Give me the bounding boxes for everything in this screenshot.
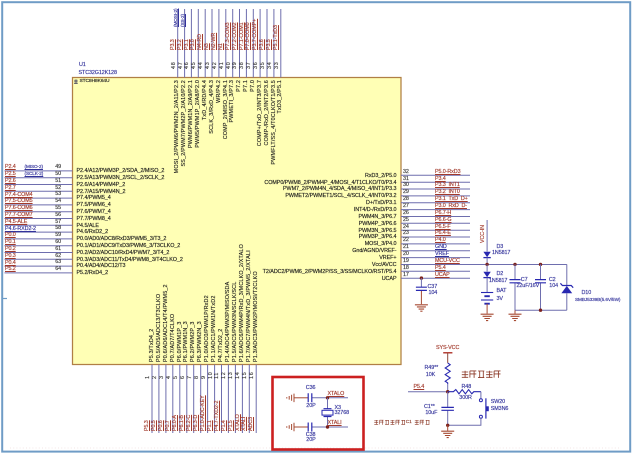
net label P2.7 (left pin 52) [5,186,16,192]
wire left pin 49 [5,170,73,172]
label SM3N6 [491,407,508,413]
pin number 9 [202,375,208,379]
net label P3.6 (top pin 35) [260,39,266,50]
pin name D+/TxD/P3.1 [237,201,397,207]
chip header STC8H8K64U [80,79,110,84]
node rail D3 [485,263,488,266]
pin number 33 [275,61,281,68]
designator U1 [79,63,86,69]
pin number 29 [403,190,409,196]
net label P1.4 (bottom pin 12) [222,420,228,431]
pin name COMP0/PWM8_2/PWM4P_4/MOSI_4/T1CLKO/T0/P3.4 [237,181,397,187]
pin name P1.1/ADC1/PWM1N/TxD2 [212,295,218,362]
pin name T2/ADC2/PWM6_2/PWM2P/SS_3/SS/MCLKO/RST/P5.4 [237,270,397,276]
pin number 35 [261,61,267,68]
pin name Vcc/AVCC [237,263,397,269]
label 10K [426,373,435,379]
pin number 10 [209,371,215,378]
wire bottom pin 11 [221,365,223,434]
pin number 47 [179,61,185,68]
net label P6.4-E (right pin 23) [435,231,451,237]
wire right pin 19 [401,264,567,266]
pin number 3 [160,375,166,379]
pin name PWM5/PWM1P_2/A8/P2.0 [196,80,202,148]
pin number 12 [222,371,228,378]
pin number 62 [47,254,61,260]
net label P7.6-COM6 (left pin 55) [5,206,33,212]
pin number 37 [247,61,253,68]
pin number 61 [47,247,61,253]
net label N2-WR (top pin 42) [212,33,218,50]
pin number 27 [403,204,409,210]
pin name P4.6/RxD2_2 [77,230,109,236]
wire right pin 31 [401,181,470,183]
pin name P2.7/A15/PWM4N_2 [77,190,126,196]
capacitor C36 20P [294,397,308,399]
wire bottom pin 2 [158,365,160,434]
wire right pin 28 [401,202,470,204]
wire right pin 25 [401,222,470,224]
crystal X3 32768 [327,398,329,427]
op-amp U1 body STC32G12K128 [73,78,402,365]
node P5.4 junction [446,390,449,393]
ground below battery [481,314,494,320]
pin name COMP-/RxD_2/INT2/P3.6 [265,80,271,146]
pin number 49 [47,165,61,171]
net label ADC3 (bottom pin 16) [249,417,255,431]
label R49** [425,366,439,372]
chip header CJK char [74,79,78,83]
wire bottom pin 4 [172,365,174,434]
net label P2.6 (left pin 51) [5,179,16,185]
net label P3.3 INT1 (right pin 30) [435,183,460,189]
node rail C2 [539,263,542,266]
ground left of C38 [287,423,294,431]
label C37 [428,285,438,291]
pin name P0.6/AD6/ADC14/T4/PWM5_2 [164,284,170,362]
pin number 36 [254,61,260,68]
net label P6.6-G (right pin 25) [435,218,451,224]
wire net P5.4 [408,391,448,393]
pin name PWMFLT/SS_4/T0CLKO/T1/P3.5 [272,80,278,165]
value STC32G12K128 [79,71,117,77]
pin number 30 [403,183,409,189]
pin number 32 [403,170,409,176]
pin number 59 [47,233,61,239]
wire right pin 21 [401,250,470,252]
ground below C7 rail [514,310,516,314]
net label P1.5 (bottom pin 13) [229,420,235,431]
pin name P0.0/AD0/ADC8/RxD3/PWM5_3/T3_2 [77,237,167,243]
pin number 23 [403,231,409,237]
wire D3 to rail [486,258,488,265]
net label P6.7-H (right pin 26) [435,211,451,217]
pin name PWM6/PWM1N_2/A9/P2.1 [189,80,195,148]
label 10uF [425,411,437,417]
wire bottom pin 15 [248,365,250,434]
wire bottom pin 7 [193,365,195,434]
pin name PWM4N_3/P6.7 [237,215,397,221]
wire right pin 30 [401,188,470,190]
pin name P7.1 [244,80,250,92]
label R48 [462,385,472,391]
pin name P7.2 [237,80,243,92]
wire left pin 60 [5,245,73,247]
net label GND (right pin 21) [435,245,447,251]
wire R48 to switch [480,392,482,399]
net label P5.4 (right pin 18) [435,266,446,272]
wire top pin 46 [190,9,192,78]
pin name P0.2/AD2/ADC10/RxD4/PWM7_3/T4_2 [77,251,170,257]
wire top pin 42 [218,9,220,78]
sheet inner margin dotted line [10,447,620,449]
wire right pin 20 [401,257,470,259]
label 20P (C36) [306,404,315,410]
pin name P5.3/TxD4_2 [150,329,156,362]
wire left pin 63 [5,265,73,267]
net label P0.5 (bottom pin 2) [152,420,158,431]
pin number 13 [229,371,235,378]
net label P0.0 (left pin 59) [5,233,16,239]
net label P2.4 (left pin 49) [5,165,16,171]
pin name P4.7/TxD2_2 [219,329,225,362]
net label P3.3 (top pin 48) [171,39,177,50]
net label P7.1-COM1 (top pin 38) [240,22,246,50]
pin name P1.6/ADC6/PWM4P/RxD_3/MCLKO_2/XTALO [240,244,246,362]
diode D10 zener [560,283,573,287]
pin name PWMETI_3/P7.3 [230,80,236,122]
pin name P7.5/PWM6_4 [77,203,111,209]
wire left pin 53 [5,197,73,199]
pin number 51 [47,179,61,185]
capacitor C37 [416,287,427,290]
wire left pin 58 [5,231,73,233]
net label P4.0 (right pin 22) [435,238,446,244]
wire right pin 26 [401,216,470,218]
wire left pin 52 [5,190,73,192]
wire top pin 37 [252,9,254,78]
label X3 [335,406,341,412]
node bottom rail C2 [539,309,542,312]
net label P4.6-RXD2-2 (left pin 58) [5,227,36,233]
pin number 53 [47,192,61,198]
pin number 46 [185,61,191,68]
net label (SCLK-2) [25,172,44,177]
wire bottom pin 6 [186,365,188,434]
pin name P6.2/PWM2P_3 [191,321,197,362]
net label P6.5-F (right pin 24) [435,225,451,231]
pin number 2 [153,375,159,379]
label C2 [549,278,556,284]
pin number 42 [213,61,219,68]
label 300R [459,396,472,402]
node UCAP junction [420,276,423,279]
net label P1.1 (bottom pin 10) [208,420,214,431]
net label P4.7-TXD2-2 (bottom pin 11) [215,401,221,431]
net label P0.3 (left pin 62) [5,254,16,260]
wire R49 to junction [447,384,449,391]
wire top pin 33 [280,9,282,78]
pin number 63 [47,260,61,266]
label 104 (C37) [429,291,438,297]
net label P3.0 (top pin 45) [191,39,197,50]
net label N3 (top pin 43) [205,43,211,50]
pin name P6.0/PWM1P_3 [178,321,184,362]
net label P2.5 (left pin 50) [5,172,16,178]
net label P5.1-TxD3 (top pin 33) [274,25,280,50]
pin number 48 [172,61,178,68]
pin number 58 [47,226,61,232]
wire top pin 38 [245,9,247,78]
net label XTALI [328,421,342,427]
net label P7.2-COM2 (top pin 39) [233,22,239,50]
label C38 [306,433,316,439]
net label P6.3-D (bottom pin 8) [194,415,200,431]
net label P6.2-C (bottom pin 7) [187,415,193,431]
pin name P4.5/ALE [77,224,99,230]
sheet zone tick left [2,298,7,300]
wire switch to ground rail [448,418,481,425]
pin number 24 [403,225,409,231]
wire top pin 45 [197,9,199,78]
highlight red box [273,377,364,450]
pin name P6.3/PWM2N_3 [198,321,204,362]
pin name P7.4/PWM5_4 [77,196,111,202]
wire top pin 48 [177,9,179,78]
pin number 56 [47,213,61,219]
wire right pin 27 [401,209,470,211]
wire top pin 44 [204,9,206,78]
pin name P0.5/AD5/ADC13/T3CLKO [157,294,163,362]
pin number 1 [146,375,152,379]
label 20P (C38) [306,438,315,444]
pin name COMP_2/MISO_3/P4.1 [224,80,230,139]
label 1N5817 (D2) [489,279,507,285]
net label (MOSI-2) [174,8,179,26]
pin number 38 [240,61,246,68]
wire bottom pin 3 [165,365,167,434]
net label VREF (right pin 20) [435,252,449,258]
wire right pin 32 [401,174,470,176]
wire C37 stem [420,278,422,287]
wire top pin 34 [273,9,275,78]
wire left pin 64 [5,272,73,274]
wire top pin 36 [259,9,261,78]
pin number 52 [47,186,61,192]
pin name WR/P4.2 [217,80,223,103]
net label P3.2 INT0 (right pin 29) [435,190,460,196]
net label P6.0-A (bottom pin 5) [173,415,179,431]
pin number 55 [47,206,61,212]
capacitor C1 10uF [447,392,449,426]
net label P3.0 RxD D- (right pin 27) [435,204,467,210]
wire top pin 47 [184,9,186,78]
wire left pin 54 [5,204,73,206]
pin name PWM7_2/PWM4N_4/SDA_4/MISO_4/INT1/P3.3 [237,187,397,193]
pin number 11 [215,372,221,379]
power label SYS-VCC [436,346,459,352]
net label P1.0-ADC-KEY (bottom pin 9) [201,395,207,431]
pin name INT4/D-/RxD/P3.0 [237,208,397,214]
net label P0.6 (bottom pin 3) [159,420,165,431]
net label P7.4-COM4 (left pin 53) [5,193,33,199]
power port SYS-VCC bar [443,352,452,354]
ground below C37 [415,305,428,311]
net label N4-RD (top pin 44) [198,34,204,50]
wire bottom pin 16 [255,365,257,434]
pin number 26 [403,211,409,217]
wire battery to ground [486,304,488,314]
net label P4.5-ALE (left pin 57) [5,220,27,226]
wire bottom pin 5 [179,365,181,434]
pin name P0.4/AD4/ADC12/T3 [77,264,126,270]
resistor R49 10K [445,363,450,384]
capacitor C2 [540,264,542,310]
node C1 ground junction [446,424,449,427]
pin name TxD3_2/P5.1 [278,80,284,113]
wire left pin 57 [5,224,73,226]
pin number 44 [199,61,205,68]
net label (MISO-2) [25,165,43,170]
net label P5.2 (left pin 64) [5,267,16,273]
wire right pin 17 [401,277,470,279]
pin number 50 [47,172,61,178]
net label XTALI (bottom pin 15) [242,417,248,431]
pin name P1.0/ADC0/PWM1P/RxD2 [205,295,211,362]
text low-level-reset (CJK) [462,371,501,378]
pin number 6 [181,375,187,379]
capacitor C38 20P [294,426,308,428]
net label P3.2 (top pin 47) [178,39,184,50]
pin name PWM3N_3/P6.5 [237,229,397,235]
pin number 28 [403,197,409,203]
net label MCU-VCC (right pin 19) [435,259,460,265]
pin name P2.5/A13/PWM3N_2/SCL_2/SCLK_2 [77,176,165,182]
pin name PWM4P_3/P6.6 [237,222,397,228]
wire D10 branch [566,264,568,285]
wire top pin 40 [232,9,234,78]
pin number 16 [250,371,256,378]
wire top pin 35 [266,9,268,78]
battery BAT 3V [486,278,488,293]
pin number 25 [403,218,409,224]
diode D2 [486,264,488,271]
ground below C1 [447,425,449,431]
wire bottom pin 10 [214,365,216,434]
pin name SS_2/PWM7/PWM2P_2/A10/P2.2 [182,80,188,166]
wire top pin 41 [225,9,227,78]
pin number 8 [195,375,201,379]
pin name COMP+/TxD_2/INT3/P3.7 [258,80,264,146]
pin name UCAP [237,277,397,283]
pin number 41 [220,61,226,68]
text use-internal-reset note (CJK) [374,420,405,425]
pin name P5.2/RxD4_2 [77,271,109,277]
pin name P0.7/AD7/T4CLKO [171,314,177,362]
pin name P2.4/A12/PWM3P_2/SDA_2/MISO_2 [77,169,165,175]
capacitor C7 [514,264,516,310]
pin number 20 [403,252,409,258]
wire left pin 55 [5,211,73,213]
net label P0.2 (left pin 61) [5,247,16,253]
net label P3.1 (top pin 46) [185,39,191,50]
wire right pin 29 [401,195,470,197]
pin number 45 [192,61,198,68]
pin number 34 [268,61,274,68]
label BAT [497,289,507,295]
pin name P7.6/PWM7_4 [77,210,111,216]
wire left pin 51 [5,184,73,186]
wire top pin 39 [239,9,241,78]
pin name P1.5/ADC5/PWM3N/SCLK/SCL [233,282,239,362]
wire right pin 23 [401,236,470,238]
net label XTALO (bottom pin 14) [236,414,242,431]
wire right pin 22 [401,243,470,245]
label 32768 [335,411,350,417]
net label P5.0-RxD3 (right pin 32) [435,170,460,176]
pin name VREF+ [237,256,397,262]
pin number 54 [47,199,61,205]
wire left pin 56 [5,218,73,220]
wire left pin 61 [5,252,73,254]
label 22uF/16V [517,284,540,290]
pin number 39 [233,61,239,68]
net label P3.4 (right pin 31) [435,177,446,183]
pin name RxD3_2/P5.0 [237,174,397,180]
label SMBJ5339B [575,298,620,303]
net label P3.1 TxD D+ (right pin 28) [435,197,468,203]
pin number 57 [47,220,61,226]
pin name P7.7/PWM8_4 [77,217,111,223]
wire left pin 59 [5,238,73,240]
label C7 [521,278,528,284]
pin number 19 [403,259,409,265]
net label P7.7-COM7 (left pin 56) [5,213,33,219]
label 104 (C2) [549,284,558,290]
pin name P1.3/ADC3/PWM2P/MOSI/T2CLKO [254,271,260,362]
net label P0.1 (left pin 60) [5,240,16,246]
label SW20 [491,400,505,406]
pin name Gnd/AGND/VREF- [237,249,397,255]
pin number 7 [188,375,194,379]
pin name PWM3P_3/P6.4 [237,235,397,241]
label 3V [497,297,503,303]
net label P6.1-B (bottom pin 6) [180,415,186,431]
pin number 22 [403,238,409,244]
resistor R48 300R [448,390,481,394]
net label P5.4 [414,385,425,391]
node XTALI junction [326,425,329,428]
wire left pin 50 [5,177,73,179]
wire bottom pin 8 [200,365,202,434]
label C1 in note [406,420,412,425]
wire bottom pin 13 [234,365,236,434]
pin number 40 [227,61,233,68]
pin name P1.7/ADC7/PWM4N/TxD_3/PWM5_2/XTALI [247,250,253,362]
wire top pin 43 [211,9,213,78]
pin number 18 [403,266,409,272]
wire bottom pin 14 [241,365,243,434]
pin number 4 [167,375,173,379]
pin name TxD_4/RD/P4.4 [203,80,209,120]
net label XTALO [328,392,345,398]
pin name P2.6/A14/PWM4P_2 [77,183,126,189]
wire left pin 62 [5,258,73,260]
net label P3.7-COMP+ (top pin 36) [253,19,259,50]
pin number 17 [403,273,409,279]
ground left of C36 [287,394,294,403]
pin name P7.0 [251,80,257,92]
